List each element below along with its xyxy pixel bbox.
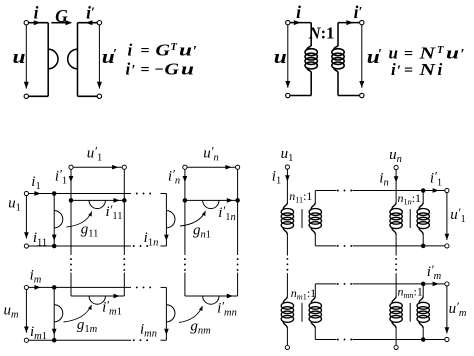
svg-text:T: T [437, 45, 444, 56]
svg-text:u: u [181, 60, 194, 79]
secondary bottom junction dot [421, 244, 426, 249]
secondary top stub [314, 191, 316, 203]
left port bottom terminal [286, 93, 290, 97]
right port top terminal [360, 20, 364, 24]
secondary rail y=190.5 left segment [315, 190, 336, 192]
cell bar current arrow [164, 329, 169, 335]
column rail x=237.6 upper segment [237, 169, 239, 255]
secondary top stub [422, 191, 424, 203]
voltage arrow u'_m [446, 286, 448, 334]
column rail x=184.9 lower segment [184, 273, 186, 296]
voltage arrow u_1 [25, 196, 27, 239]
port bar arc [203, 200, 219, 208]
primary stem middle lower [395, 273, 397, 296]
cell bar arc [54, 211, 63, 228]
svg-text:′: ′ [113, 46, 117, 61]
svg-text:G: G [165, 60, 180, 79]
gyration arrow g_n1 [180, 211, 206, 226]
transformer left stem top [310, 23, 312, 46]
wire: bottom-left [290, 95, 311, 97]
secondary rail port terminal [445, 244, 449, 248]
gyrator left arc [48, 49, 58, 69]
gyrator cell bar x=166.4 [165, 194, 167, 247]
cell bar current arrow [164, 235, 169, 241]
gyration arrow g_1m [64, 305, 92, 322]
secondary rail right segment [353, 283, 445, 285]
secondary rail current arrow [433, 282, 439, 287]
primary stem middle lower [286, 273, 288, 296]
gyrator cell bar x=166.4 [165, 287, 167, 340]
port u'_n left terminal [183, 165, 187, 169]
port u_m bottom terminal [24, 338, 28, 342]
wire: top-left with current arrow i [29, 22, 49, 24]
port u_1 bottom terminal [24, 244, 28, 248]
secondary bottom stub [314, 235, 316, 246]
secondary rail port terminal [445, 337, 449, 341]
voltage arrow u_m [25, 290, 27, 333]
port u'_1 left terminal [69, 165, 73, 169]
current arrow i_n [394, 176, 399, 182]
junction dot bottom [52, 338, 57, 343]
port u_1 top terminal [24, 191, 28, 195]
gyrator cell bar x=54.2 [53, 194, 55, 247]
transformer right stem [337, 23, 339, 46]
secondary rail dots [337, 339, 339, 341]
row bottom rail left segment [29, 245, 132, 247]
gyrator port bar y=200.4 [185, 199, 238, 201]
wire: top-right with current arrow i' [338, 22, 360, 24]
row top rail dots [136, 286, 138, 288]
port u_n top terminal [394, 165, 398, 169]
secondary rail dots [337, 190, 339, 192]
svg-text:′: ′ [378, 46, 382, 61]
svg-text:N: N [418, 60, 436, 79]
secondary bottom stub [314, 328, 316, 339]
port u_1 top terminal [285, 165, 289, 169]
junction dot top [52, 191, 57, 196]
wire: top-left with current arrow i [290, 22, 311, 24]
transformer right coil L2 [334, 45, 338, 49]
wire: bottom-left [29, 95, 49, 97]
port bar right junction dot [235, 198, 240, 203]
primary coil row 1 [283, 203, 287, 210]
svg-text:G: G [55, 6, 68, 26]
secondary top stub [314, 284, 316, 296]
column rail x=184.9 upper segment [184, 169, 186, 255]
secondary rail port terminal [445, 282, 449, 286]
svg-text:=: = [141, 62, 150, 79]
voltage arrow u [25, 25, 27, 89]
secondary rail y=339.5 left segment [315, 339, 336, 341]
port bar left junction dot [69, 198, 74, 203]
row top rail right stub [161, 286, 167, 288]
gyrator 2-port symbol: left port top terminal [24, 21, 28, 25]
svg-text:i: i [126, 60, 131, 79]
port bar arc [89, 296, 105, 304]
row top rail right stub [161, 193, 167, 195]
secondary rail y=245.9 left segment [315, 245, 336, 247]
svg-text:i: i [438, 60, 443, 79]
transformer left coil L1 [307, 45, 311, 49]
svg-text:G: G [156, 41, 171, 60]
junction dot bottom [52, 244, 57, 249]
voltage arrow u'_1 [73, 166, 122, 168]
svg-text:i: i [128, 41, 133, 60]
primary coil row m [392, 296, 396, 303]
primary stem middle upper [286, 235, 288, 256]
voltage arrow u [287, 25, 289, 88]
current arrow i_1 [285, 175, 290, 181]
transformer core line [409, 303, 411, 322]
svg-text:i: i [391, 60, 396, 79]
transformer core line [301, 209, 303, 228]
secondary rail right segment [353, 339, 445, 341]
primary stem lower [286, 328, 288, 345]
transformer left stem bottom [310, 72, 312, 95]
primary coil row 1 [392, 203, 396, 210]
primary continuation dots [395, 258, 397, 260]
secondary top junction dot [421, 282, 426, 287]
secondary coil x=315.3 [311, 296, 315, 303]
transformer 2-port: left port top terminal [286, 20, 290, 24]
secondary rail right segment [353, 245, 445, 247]
port bar right junction dot [122, 198, 127, 203]
transformer core line [409, 209, 411, 228]
svg-text:′: ′ [193, 44, 197, 60]
secondary coil x=315.3 [311, 203, 315, 210]
svg-text:′: ′ [397, 63, 401, 79]
primary coil row m [283, 296, 287, 303]
current arrow i'_n [183, 176, 188, 182]
secondary rail port terminal [445, 188, 449, 192]
right port bottom terminal [360, 93, 364, 97]
svg-text:′: ′ [132, 63, 136, 79]
secondary rail right segment [353, 190, 445, 192]
column rail continuation dots [237, 258, 239, 260]
column rail x=124.3 lower segment [123, 273, 125, 296]
secondary rail current arrow [433, 188, 439, 193]
gyrator right arc [68, 49, 78, 69]
gyrator left bar [47, 23, 49, 97]
secondary bottom junction dot [421, 337, 426, 342]
secondary bottom stub [422, 235, 424, 246]
row top rail dots [136, 193, 138, 195]
voltage arrow u' [98, 25, 100, 89]
svg-text:i: i [34, 3, 39, 23]
primary bottom terminal [285, 345, 289, 349]
port bar current arrow [227, 198, 233, 203]
row top rail left segment [29, 193, 132, 195]
right port top terminal [97, 21, 101, 25]
right port bottom terminal [97, 94, 101, 98]
svg-text:i: i [296, 2, 301, 22]
row bottom rail left segment [29, 339, 132, 341]
svg-text:=: = [404, 62, 413, 79]
voltage arrow u'_1 [446, 193, 448, 240]
gyrator right bar [77, 23, 79, 97]
svg-text:u: u [446, 44, 459, 63]
current arrow i_1 [34, 191, 40, 196]
column rail continuation dots [70, 258, 72, 260]
junction dot top [52, 285, 57, 290]
svg-text:T: T [171, 42, 178, 53]
port bar arc [203, 296, 219, 304]
gyration direction arrow G [51, 22, 66, 24]
port u'_1 right terminal [122, 165, 126, 169]
column rail x=71.0 lower segment [70, 273, 72, 296]
cell bar arc [54, 305, 63, 322]
column rail x=71.0 upper segment [70, 169, 72, 255]
wire: top-right with current arrow i' [78, 22, 98, 24]
port u'_n right terminal [236, 165, 240, 169]
primary bottom terminal [394, 345, 398, 349]
current arrow i_m [34, 285, 40, 290]
left port bottom terminal [24, 94, 28, 98]
port bar current arrow [227, 294, 233, 299]
voltage arrow u'_n [187, 166, 236, 168]
secondary rail y=283.9 left segment [315, 283, 336, 285]
row bottom rail right stub [161, 245, 167, 247]
wire: bottom-right [338, 95, 360, 97]
svg-text:−: − [155, 62, 164, 79]
secondary bottom stub [422, 328, 424, 339]
column rail x=124.3 upper segment [123, 169, 125, 255]
secondary coil x=423.2 [419, 296, 423, 303]
primary stem middle upper [395, 235, 397, 256]
row top rail left segment [29, 286, 132, 288]
column rail continuation dots [184, 258, 186, 260]
wire: bottom-right [78, 95, 98, 97]
cell bar arc [166, 305, 175, 322]
secondary coil x=423.2 [419, 203, 423, 210]
primary stem x=287.4 upper [286, 169, 288, 202]
svg-text:u: u [274, 48, 287, 68]
secondary top junction dot [421, 188, 426, 193]
cell bar current arrow [52, 329, 57, 335]
cell bar arc [166, 211, 175, 228]
row bottom rail dots [133, 245, 135, 247]
column rail continuation dots [123, 258, 125, 260]
port u_m top terminal [24, 285, 28, 289]
cell bar current arrow [52, 235, 57, 241]
svg-text:u: u [13, 48, 26, 68]
svg-text:N:1: N:1 [308, 24, 335, 43]
primary stem lower [395, 328, 397, 345]
gyrator port bar y=296.0 [71, 295, 124, 297]
primary continuation dots [286, 258, 288, 260]
port bar current arrow [114, 198, 120, 203]
secondary rail dots [337, 283, 339, 285]
voltage arrow u' [361, 25, 363, 88]
secondary rail dots [337, 245, 339, 247]
transformer core line [301, 303, 303, 322]
port bar current arrow [114, 294, 120, 299]
svg-text:=: = [404, 46, 413, 63]
row bottom rail dots [133, 339, 135, 341]
gyration arrow g_nm [179, 306, 203, 323]
gyrator cell bar x=54.2 [53, 287, 55, 340]
port bar arc [89, 200, 105, 208]
gyrator port bar y=296.0 [185, 295, 238, 297]
row bottom rail right stub [161, 339, 167, 341]
svg-text:u: u [179, 41, 192, 60]
secondary top stub [422, 284, 424, 296]
port bar left junction dot [183, 198, 188, 203]
gyration arrow g_11 [67, 212, 92, 228]
svg-text:′: ′ [461, 47, 465, 63]
primary stem x=396.1 upper [395, 170, 397, 203]
current arrow i'_1 [69, 176, 74, 182]
column rail x=237.6 lower segment [237, 273, 239, 296]
gyrator port bar y=200.4 [71, 199, 124, 201]
svg-text:=: = [141, 43, 150, 60]
